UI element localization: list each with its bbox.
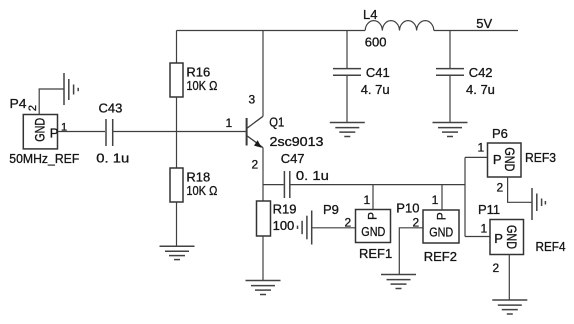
ground (P6, sideways right-facing) xyxy=(532,188,545,220)
resistor R18 xyxy=(170,168,183,202)
wire R19 to ground xyxy=(262,236,264,280)
wire Q1 emitter down xyxy=(262,148,264,201)
svg-text:GND: GND xyxy=(504,225,519,249)
inductor L4 xyxy=(365,21,434,31)
svg-text:P10: P10 xyxy=(396,201,419,216)
capacitor C41 xyxy=(333,69,361,76)
svg-text:GND: GND xyxy=(502,147,517,171)
svg-text:C47: C47 xyxy=(281,151,305,166)
wire REF4 pin1 xyxy=(465,236,490,238)
svg-text:P: P xyxy=(493,152,502,167)
svg-text:2: 2 xyxy=(497,180,504,194)
wire C41 top stem xyxy=(346,31,348,69)
svg-text:100: 100 xyxy=(273,218,295,233)
svg-text:P: P xyxy=(366,212,380,220)
wire C43 to Q1 base xyxy=(113,131,245,133)
svg-text:P4: P4 xyxy=(10,96,27,111)
svg-text:GND: GND xyxy=(429,225,453,240)
wire C47 rail to node xyxy=(291,184,466,186)
ground (P9, sideways left-facing) xyxy=(298,211,312,245)
wire C42 top stem xyxy=(449,31,451,69)
svg-text:R19: R19 xyxy=(273,202,297,217)
capacitor C42 xyxy=(436,69,464,76)
ground (under R18) xyxy=(160,246,195,259)
svg-text:GND: GND xyxy=(32,118,47,142)
ground (P4, sideways right-facing) xyxy=(64,73,78,105)
svg-text:50MHz_REF: 50MHz_REF xyxy=(9,151,79,166)
connector REF1 box xyxy=(356,210,391,243)
ground (under R19) xyxy=(246,281,281,295)
connector P4 box xyxy=(23,115,57,149)
resistor R16 xyxy=(170,63,183,97)
svg-text:2sc9013: 2sc9013 xyxy=(270,134,324,149)
svg-text:4. 7u: 4. 7u xyxy=(361,82,390,97)
svg-text:C43: C43 xyxy=(99,101,123,116)
wire REF3 pin1 xyxy=(465,156,488,158)
connector REF4 box xyxy=(490,220,524,255)
svg-text:L4: L4 xyxy=(363,7,377,22)
wire REF3 pin2 to ground xyxy=(508,177,532,202)
resistor R19 xyxy=(257,201,271,236)
svg-text:2: 2 xyxy=(27,105,39,111)
capacitor C43 xyxy=(106,119,113,146)
ground (under C41) xyxy=(330,123,365,137)
wire P4 pin2 to ground xyxy=(39,89,64,115)
wire R16 to main wire to R18 xyxy=(176,97,178,168)
ground (under C42) xyxy=(433,123,468,137)
svg-text:P: P xyxy=(494,231,503,246)
svg-text:1: 1 xyxy=(481,222,488,236)
wire emitter rail left segment xyxy=(263,184,284,186)
wire top rail right xyxy=(434,30,518,32)
svg-text:10K Ω: 10K Ω xyxy=(186,78,217,93)
svg-text:10K Ω: 10K Ω xyxy=(186,183,217,198)
svg-text:P11: P11 xyxy=(478,202,500,217)
wire P4 pin1 to C43 xyxy=(58,131,106,133)
svg-text:2: 2 xyxy=(493,261,500,275)
svg-text:C41: C41 xyxy=(366,65,390,80)
wire REF2 pin1 stem xyxy=(441,185,443,210)
capacitor C47 xyxy=(284,171,289,198)
svg-text:1: 1 xyxy=(478,141,485,155)
wire C41 to ground xyxy=(346,76,348,122)
svg-text:P: P xyxy=(434,212,448,220)
svg-text:P6: P6 xyxy=(492,126,508,141)
svg-text:2: 2 xyxy=(252,158,259,172)
transistor Q1 xyxy=(247,116,263,148)
wire P9 ground to REF1 pin2 xyxy=(312,227,356,229)
svg-text:REF1: REF1 xyxy=(359,246,392,261)
wire REF2 pin2 to ground xyxy=(399,228,423,274)
svg-text:REF4: REF4 xyxy=(536,239,566,254)
svg-text:4. 7u: 4. 7u xyxy=(466,82,495,97)
svg-text:REF3: REF3 xyxy=(525,150,556,165)
ground (REF2 pin2) xyxy=(381,275,416,289)
Q1 collector wire to rail xyxy=(262,31,264,117)
svg-text:1: 1 xyxy=(226,116,233,130)
wire REF1 pin1 stem xyxy=(372,185,374,210)
svg-text:3: 3 xyxy=(249,93,256,107)
wire top rail xyxy=(177,30,366,32)
svg-text:2: 2 xyxy=(345,216,352,230)
svg-text:REF2: REF2 xyxy=(424,249,457,264)
wire node vertical x=465 xyxy=(464,157,466,236)
svg-text:P9: P9 xyxy=(323,202,339,217)
wire R18 to ground xyxy=(176,202,178,246)
svg-text:GND: GND xyxy=(361,224,385,239)
svg-text:1: 1 xyxy=(432,193,439,207)
svg-text:P: P xyxy=(50,126,59,141)
svg-text:C42: C42 xyxy=(469,65,493,80)
connector REF2 box xyxy=(423,210,459,243)
connector REF3 box xyxy=(488,143,522,177)
wire C42 to ground xyxy=(449,76,451,122)
svg-text:5V: 5V xyxy=(476,16,492,31)
wire REF4 pin2 to ground xyxy=(508,255,510,300)
ground (under REF4) xyxy=(492,300,527,314)
wire left vertical R16/R18 column xyxy=(176,31,178,64)
svg-text:Q1: Q1 xyxy=(269,115,284,130)
svg-text:0. 1u: 0. 1u xyxy=(296,168,329,183)
svg-text:1: 1 xyxy=(364,193,371,207)
svg-text:600: 600 xyxy=(365,35,387,50)
svg-text:0. 1u: 0. 1u xyxy=(96,151,129,166)
